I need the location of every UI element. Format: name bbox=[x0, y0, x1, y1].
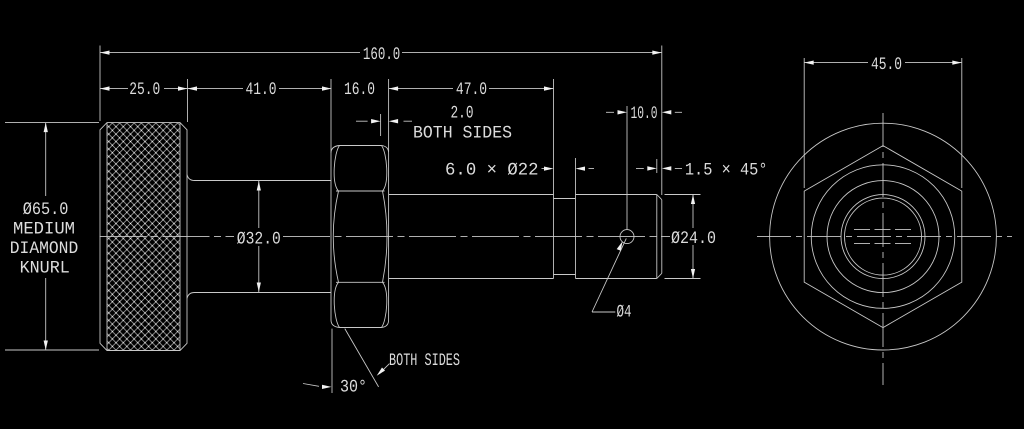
extension line part right end bbox=[661, 46, 663, 196]
47 right bbox=[544, 86, 554, 90]
2.0 left bbox=[371, 119, 381, 123]
D32 dimension line bbox=[258, 181, 260, 292]
svg-text:Ø24.0: Ø24.0 bbox=[671, 229, 716, 249]
svg-text:KNURL: KNURL bbox=[20, 258, 70, 278]
groove left shoulder bbox=[553, 79, 555, 279]
cross hole D4 bbox=[620, 230, 634, 244]
extension line left end bbox=[99, 46, 101, 122]
30 deg arrow tail bbox=[303, 384, 319, 387]
svg-text:41.0: 41.0 bbox=[246, 80, 277, 100]
end chamfer line bbox=[656, 195, 658, 279]
hex band line lower bbox=[336, 281, 385, 283]
svg-text:47.0: 47.0 bbox=[456, 80, 487, 100]
1.5 right bbox=[662, 166, 672, 170]
both sides leader bbox=[380, 364, 390, 374]
6.0 left bbox=[544, 167, 554, 171]
dim 6.0 leader tails bbox=[542, 168, 595, 170]
dim 45.0 line bbox=[804, 62, 962, 64]
both sides arrow bbox=[377, 368, 385, 376]
groove right shoulder bbox=[575, 158, 577, 279]
svg-text:Ø32.0: Ø32.0 bbox=[237, 230, 281, 250]
end view circle D32 bbox=[827, 181, 939, 293]
end section D24 edges bbox=[576, 195, 657, 279]
svg-text:30°: 30° bbox=[340, 378, 367, 398]
svg-text:BOTH SIDES: BOTH SIDES bbox=[413, 123, 512, 143]
shaft D32 top edge with fillet bbox=[187, 175, 331, 181]
dim 2.0 tails bbox=[356, 120, 412, 122]
160 right bbox=[652, 51, 662, 55]
41 left bbox=[188, 86, 198, 90]
svg-text:6.0 × Ø22: 6.0 × Ø22 bbox=[445, 161, 539, 181]
tick 1.5 chamfer bbox=[656, 159, 658, 173]
svg-text:MEDIUM: MEDIUM bbox=[13, 219, 75, 239]
10 left bbox=[618, 110, 628, 114]
end face bbox=[661, 200, 663, 274]
D65 extension lines bbox=[5, 123, 99, 350]
svg-text:16.0: 16.0 bbox=[344, 80, 375, 100]
end view circle D22 bbox=[845, 198, 922, 275]
groove surface lines bbox=[554, 199, 576, 275]
extension line hex left bbox=[330, 79, 332, 153]
extension line hole center bbox=[626, 106, 628, 230]
30 deg arrow bbox=[322, 385, 332, 389]
D65 dimension line bbox=[45, 123, 47, 350]
end view vertical centerline bbox=[882, 113, 884, 385]
25 left bbox=[100, 86, 110, 90]
knurl diamond hatch bbox=[108, 123, 180, 350]
D65 top bbox=[44, 123, 48, 133]
D24 dimension line bbox=[692, 195, 694, 279]
hex section outline bbox=[331, 146, 389, 328]
41 right bbox=[322, 86, 332, 90]
hex face chamfer arcs bbox=[334, 146, 387, 192]
svg-text:1.5 × 45°: 1.5 × 45° bbox=[685, 161, 768, 181]
hex band line upper bbox=[336, 190, 385, 192]
svg-text:2.0: 2.0 bbox=[451, 104, 474, 124]
47 left bbox=[389, 86, 399, 90]
dim 1.5 tails bbox=[636, 167, 682, 169]
end view hexagon bbox=[804, 146, 962, 328]
D24 top bbox=[691, 195, 695, 205]
D32 top bbox=[257, 181, 261, 191]
end chamfer diagonals bbox=[657, 195, 662, 279]
shaft D24 edges bbox=[389, 195, 554, 279]
2.0 right bbox=[389, 119, 399, 123]
D32 bottom bbox=[257, 283, 261, 293]
D24 extension lines bbox=[665, 195, 701, 279]
end view circle D24 bbox=[841, 195, 925, 279]
end view horizontal centerline bbox=[757, 236, 1012, 238]
knurl region boundary lines bbox=[107, 123, 180, 351]
dim 47.0 line bbox=[389, 88, 554, 90]
45 left bbox=[804, 61, 814, 65]
svg-text:Ø65.0: Ø65.0 bbox=[23, 200, 69, 220]
45 right bbox=[952, 61, 962, 65]
end view chamfer circle D41 bbox=[811, 165, 955, 309]
dim 10.0 tails bbox=[606, 111, 682, 113]
D24 bottom bbox=[691, 269, 695, 279]
dim 45.0 extension lines bbox=[804, 58, 962, 188]
1.5 left bbox=[647, 166, 657, 170]
6.0 right bbox=[576, 167, 586, 171]
dim 25.0 line bbox=[100, 88, 188, 90]
dim 160.0 line bbox=[100, 52, 662, 54]
end view hidden hole lines bbox=[854, 230, 912, 244]
svg-text:Ø4: Ø4 bbox=[617, 303, 632, 323]
hole leader line bbox=[592, 238, 626, 312]
shaft D32 bottom edge with fillet bbox=[187, 293, 331, 299]
160 left bbox=[100, 51, 110, 55]
svg-text:45.0: 45.0 bbox=[871, 55, 902, 75]
tick 2.0 bbox=[380, 114, 382, 136]
svg-text:160.0: 160.0 bbox=[363, 45, 400, 65]
D65 bottom bbox=[44, 341, 48, 351]
10 right bbox=[662, 110, 672, 114]
svg-text:DIAMOND: DIAMOND bbox=[10, 239, 79, 259]
30 deg extension line bbox=[331, 329, 333, 393]
extension line head right bbox=[187, 79, 189, 122]
30 deg angle line bbox=[345, 329, 379, 387]
svg-text:25.0: 25.0 bbox=[129, 80, 160, 100]
svg-text:10.0: 10.0 bbox=[631, 104, 658, 124]
center line side view bbox=[100, 236, 671, 238]
svg-text:BOTH SIDES: BOTH SIDES bbox=[389, 351, 460, 371]
knurled head outline bbox=[100, 123, 187, 351]
end view outer circle D65 bbox=[770, 123, 997, 350]
extension line hex right bbox=[388, 79, 390, 152]
hole leader arrow bbox=[617, 241, 623, 251]
dim 41.0 line bbox=[188, 88, 332, 90]
25 right bbox=[178, 86, 188, 90]
